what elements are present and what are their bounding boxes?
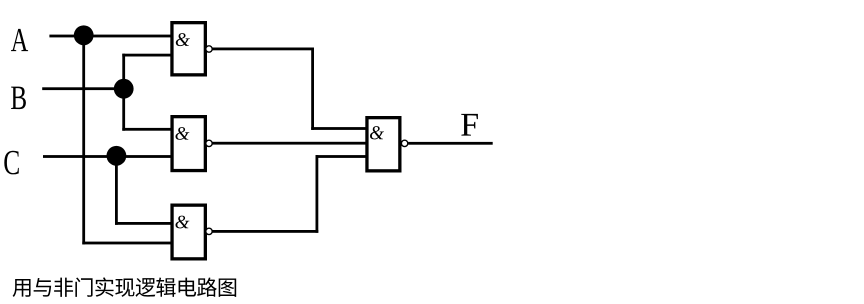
- NAND gate U4: [367, 118, 400, 171]
- U4 & symbol: [370, 126, 384, 139]
- node F label: [461, 114, 478, 136]
- NAND gate U3: [172, 205, 205, 259]
- junction on C: [107, 146, 127, 166]
- wire: input A to U1 pin 1: [49, 35, 171, 38]
- wire: A branch vertical: [82, 36, 85, 244]
- wire: B branch to U2 pin 1: [122, 128, 171, 131]
- wire: U2 output to U4 pin 2: [212, 142, 366, 145]
- wire: B branch down vertical: [122, 89, 125, 131]
- junction on B: [114, 79, 134, 99]
- U3 output bubble: [206, 228, 212, 234]
- wire: U1 output horizontal: [212, 48, 314, 51]
- wire: C branch vertical: [115, 157, 118, 225]
- wire: C branch to U3 pin 1: [115, 222, 172, 225]
- wire: U3 output vertical: [316, 155, 319, 233]
- NAND gate U1: [172, 23, 205, 75]
- node B label: [11, 87, 26, 109]
- wire: input B: [42, 87, 124, 90]
- U4 output bubble: [401, 140, 407, 146]
- U2 & symbol: [175, 127, 189, 140]
- U1 output bubble: [206, 46, 212, 52]
- wire: U3 output horizontal: [212, 230, 318, 233]
- node C label: [4, 151, 18, 175]
- wire: input C to U2 pin 2: [43, 155, 172, 158]
- wire: U4 output to F: [408, 142, 493, 145]
- U1 & symbol: [176, 33, 190, 46]
- wire: B branch to U1 pin 2: [122, 54, 171, 57]
- wire: to U4 pin 1: [311, 127, 366, 130]
- U3 & symbol: [175, 216, 189, 229]
- node A label: [11, 29, 28, 51]
- wire: A branch to U3 pin 2: [82, 242, 171, 245]
- wire: B branch up vertical: [122, 54, 125, 89]
- caption text 用与非门实现逻辑电路图: [13, 277, 237, 297]
- U2 output bubble: [206, 140, 212, 146]
- junction on A: [74, 25, 94, 45]
- wire: U1 output vertical: [311, 48, 314, 130]
- NAND gate U2: [172, 117, 205, 171]
- wire: to U4 pin 3: [316, 155, 367, 158]
